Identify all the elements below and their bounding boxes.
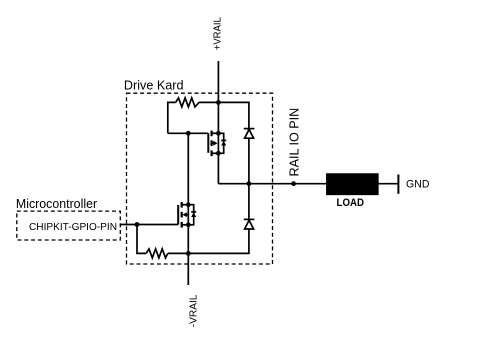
svg-text:Microcontroller: Microcontroller [16, 197, 97, 211]
wire D2 to bottom [188, 229, 249, 253]
diode D1 triangle [245, 129, 254, 138]
mosfet Q2 body diode [191, 212, 196, 217]
mosfet Q1 body diode loop [218, 133, 223, 153]
label +VRAIL [212, 17, 223, 50]
wire rail node to Q1 drain [217, 102, 219, 133]
mosfet Q2 drain lead [182, 204, 189, 206]
wire Q2 source down [187, 225, 189, 254]
node rail io pin [291, 181, 296, 186]
wire branch down to Q2 [187, 133, 189, 204]
node gate branch [186, 131, 191, 136]
mosfet Q2 body arrow [182, 212, 188, 217]
svg-text:LOAD: LOAD [337, 197, 365, 209]
wire rail io to diode D2 [248, 184, 250, 220]
drive kard dashed box [127, 93, 273, 264]
load block [327, 174, 378, 194]
mosfet Q2 channel segments [181, 202, 183, 228]
wire rail io horizontal [218, 183, 398, 185]
svg-text:+VRAIL: +VRAIL [212, 17, 223, 50]
node Q1 drain [216, 131, 221, 136]
mosfet Q1 source lead [212, 152, 219, 154]
node rail/R1 [216, 100, 221, 105]
ground terminal bar [397, 175, 399, 194]
svg-text:CHIPKIT-GPIO-PIN: CHIPKIT-GPIO-PIN [29, 222, 117, 233]
mosfet Q2 source lead [182, 224, 189, 226]
wire resistor R1 right lead [199, 101, 218, 103]
wire resistor R1 left lead [168, 102, 176, 133]
node diodes/rail io [247, 181, 252, 186]
wire branch to resistor R2 [137, 225, 146, 254]
node gpio branch [135, 222, 140, 227]
wire D1 to rail io [248, 138, 250, 184]
node Q2 source [186, 222, 191, 227]
diode D1 cathode bar [244, 128, 255, 130]
microcontroller dashed box [17, 211, 121, 240]
node rail/R2 [186, 251, 191, 256]
wire through Q1 [217, 133, 219, 153]
diode D2 triangle [245, 220, 254, 229]
wire Q1 gate [168, 132, 209, 134]
resistor R2 [146, 249, 168, 258]
svg-text:GND: GND [406, 179, 430, 191]
wire -VRAIL lead [187, 253, 189, 285]
mosfet Q2 body diode loop [188, 205, 193, 225]
resistor R1 [176, 98, 199, 107]
mosfet Q1 body diode [221, 140, 226, 145]
wire Q1 source down [217, 153, 219, 183]
mosfet Q1 gate bar [207, 133, 209, 153]
mosfet Q2 gate bar [177, 205, 179, 225]
mosfet Q1 channel segments [211, 131, 213, 157]
mosfet Q1 body arrow [212, 141, 218, 146]
svg-text:RAIL IO PIN: RAIL IO PIN [288, 108, 302, 177]
wire through Q2 [187, 205, 189, 225]
diode D2 cathode bar [244, 218, 255, 220]
wire CHIPKIT-GPIO-PIN to Q2 gate [120, 224, 178, 226]
node Q2 drain [186, 202, 191, 207]
node Q1 source [216, 151, 221, 156]
junction dots [135, 100, 296, 256]
mosfet Q1 drain lead [212, 132, 219, 134]
wire resistor R2 right lead [168, 252, 189, 254]
svg-text:Drive Kard: Drive Kard [124, 79, 184, 93]
wire top to diode D1 [218, 102, 249, 128]
wire +VRAIL lead [217, 61, 219, 102]
svg-text:-VRAIL: -VRAIL [189, 294, 200, 327]
